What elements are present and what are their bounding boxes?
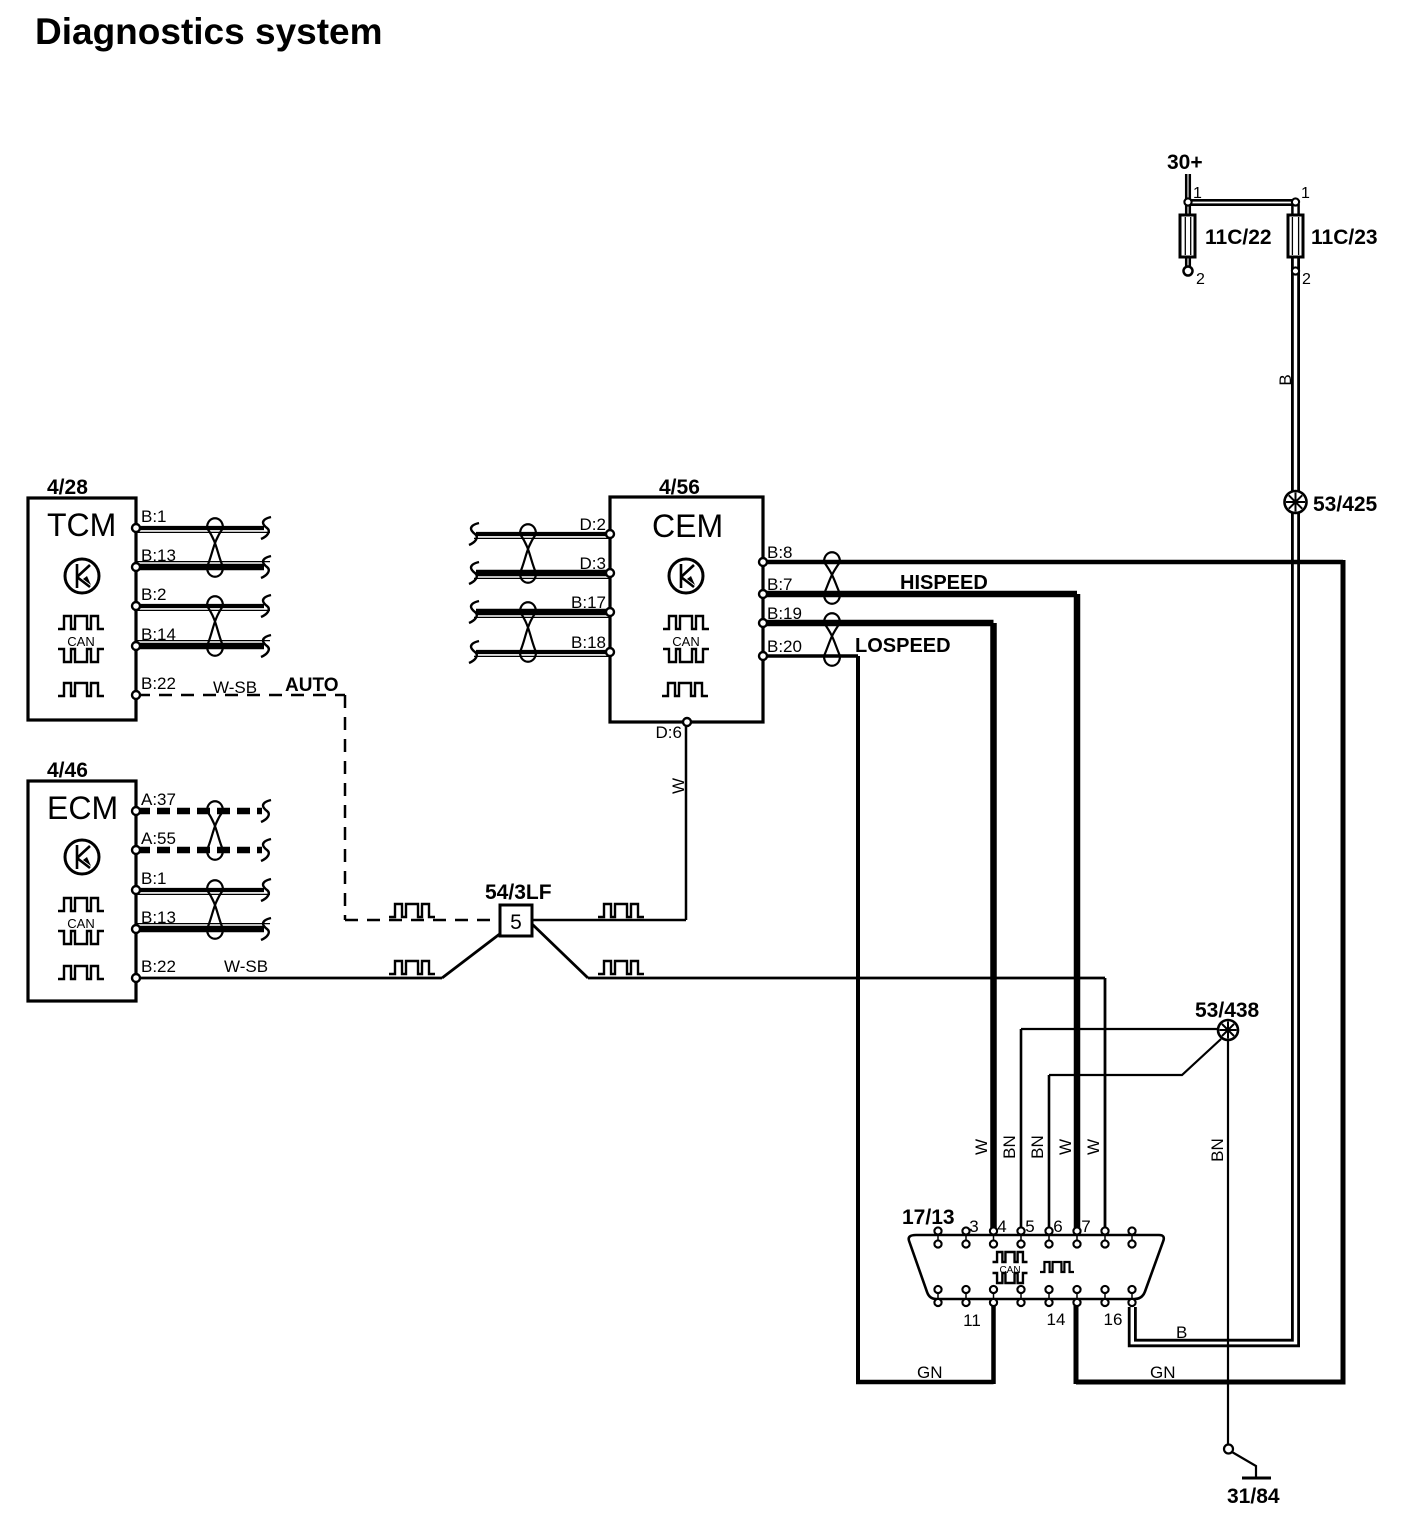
svg-text:B:8: B:8: [767, 543, 793, 562]
twisted pair symbol B:8/B:7: [824, 552, 840, 604]
wire BN splice to ground switch: [1227, 1038, 1229, 1448]
twisted pair symbol D:2/D:3: [520, 524, 536, 583]
pulse symbol on right branch: [598, 961, 644, 974]
wire TCM B:1 (CAN pair): [137, 526, 264, 530]
wire D:6 vertical: [685, 724, 688, 920]
fuse 11C/23 body: [1288, 215, 1303, 257]
svg-text:5: 5: [510, 911, 522, 934]
wire TCM B:22 W-SB dashed segment: [137, 694, 345, 697]
TCM pin B:22: [132, 691, 140, 699]
svg-text:3: 3: [969, 1217, 978, 1236]
CEM pin B:17: [606, 608, 614, 616]
control module TCM box: [28, 498, 136, 720]
wire junction to CEM D:6 horizontal: [532, 919, 686, 922]
svg-text:AUTO: AUTO: [285, 675, 338, 696]
svg-text:TCM: TCM: [47, 507, 116, 543]
pulse symbol on W-SB branch: [389, 961, 435, 974]
wire break B:14: [261, 635, 271, 657]
wire break B:13: [261, 556, 271, 578]
svg-text:11: 11: [963, 1311, 981, 1330]
terminal 2 left: [1184, 267, 1193, 276]
wire ECM A:37 dashed: [137, 808, 262, 815]
wire BN to pin 5: [1049, 1039, 1221, 1075]
ECM K-line diagnostic symbol: [65, 840, 99, 874]
wire CEM B:19 horizontal: [763, 620, 994, 627]
wire GN right vertical to pin 14: [1074, 1303, 1079, 1384]
TCM pin B:13: [132, 563, 140, 571]
wire AUTO dashed vertical: [344, 695, 347, 920]
CEM pin B:18: [606, 648, 614, 656]
CEM pulse symbol: [662, 683, 708, 696]
svg-text:B:18: B:18: [571, 633, 606, 652]
ECM pin A:55: [132, 846, 140, 854]
ECM CAN symbol: [58, 898, 104, 911]
wire ECM B:22 W-SB to junction: [137, 977, 442, 980]
wire BN to pin 4: [1021, 1028, 1218, 1030]
wire B:20 vertical down: [856, 656, 860, 1382]
pulse symbol on D:6 branch: [598, 904, 644, 917]
svg-text:BN: BN: [1000, 1135, 1019, 1159]
svg-text:W: W: [972, 1139, 991, 1155]
twisted pair symbol ECM B:1/B:13: [207, 880, 223, 939]
wire B:8 vertical down: [1341, 560, 1346, 1382]
CEM pin D:3: [606, 569, 614, 577]
ECM pin B:13: [132, 925, 140, 933]
svg-text:B:13: B:13: [141, 908, 176, 927]
connector CAN symbol: [993, 1252, 1028, 1262]
node 1 right stub: [1291, 204, 1294, 215]
switch lever: [1232, 1452, 1256, 1477]
wire TCM B:2 (CAN pair): [137, 604, 264, 608]
TCM pin B:2: [132, 602, 140, 610]
svg-text:31/84: 31/84: [1227, 1485, 1280, 1508]
wire junction left diagonal: [442, 933, 501, 978]
wire TCM B:14 (CAN pair): [137, 643, 264, 650]
CEM pin B:8: [759, 558, 767, 566]
svg-text:B:7: B:7: [767, 575, 793, 594]
control module ECM box: [28, 781, 136, 1001]
connector bottom row pins 9-16: [937, 1286, 939, 1306]
wire break B:17: [469, 601, 479, 623]
svg-text:14: 14: [1047, 1310, 1066, 1329]
svg-text:D:6: D:6: [656, 723, 682, 742]
wire GN left vertical to pin 11: [991, 1303, 996, 1384]
wire CEM B:8 horizontal: [763, 560, 1343, 565]
svg-text:CAN: CAN: [67, 634, 94, 649]
CEM pin B:20: [759, 652, 767, 660]
svg-text:B:13: B:13: [141, 546, 176, 565]
wire B:7 vertical to pin 6: [1074, 594, 1081, 1228]
svg-text:30+: 30+: [1167, 151, 1203, 174]
TCM K-line diagnostic symbol: [65, 559, 99, 593]
wire ECM B:1 (CAN pair): [137, 888, 264, 892]
CEM K-line diagnostic symbol: [669, 559, 703, 593]
svg-text:11C/23: 11C/23: [1311, 226, 1378, 249]
node 1 left: [1184, 198, 1191, 205]
wire break D:2: [469, 523, 479, 545]
TCM pin B:1: [132, 524, 140, 532]
twisted pair symbol B:2/B:14: [207, 596, 223, 656]
wire break B:18: [469, 641, 479, 663]
wire break ECM B:1: [261, 879, 271, 901]
svg-text:2: 2: [1196, 271, 1205, 288]
TCM pulse symbol: [58, 683, 104, 696]
svg-text:B:22: B:22: [141, 957, 176, 976]
ground bar 31/84: [1242, 1477, 1271, 1480]
ECM pin A:37: [132, 807, 140, 815]
svg-text:W: W: [1084, 1139, 1103, 1155]
twisted pair symbol B:19/B:20: [824, 613, 840, 666]
svg-text:6: 6: [1053, 1217, 1062, 1236]
wire B:19 vertical to pin 3: [990, 623, 997, 1228]
CEM pin D:6: [683, 718, 691, 726]
svg-text:11C/22: 11C/22: [1205, 226, 1272, 249]
CEM pin D:2: [606, 530, 614, 538]
wire break B:1: [261, 517, 271, 539]
wire break B:2: [261, 595, 271, 617]
CEM pin B:19: [759, 619, 767, 627]
CEM CAN symbol: [663, 616, 709, 629]
svg-text:B:1: B:1: [141, 507, 167, 526]
node 1 right: [1292, 198, 1299, 205]
wire CEM B:17 (pair): [476, 609, 609, 616]
control module CEM box: [610, 497, 763, 722]
svg-text:A:37: A:37: [141, 790, 176, 809]
wire GN left horizontal: [856, 1380, 994, 1385]
svg-text:D:3: D:3: [580, 554, 606, 573]
wire break A:37: [261, 800, 271, 822]
splice 53/425: [1285, 491, 1307, 513]
svg-text:B:19: B:19: [767, 604, 802, 623]
wire ECM A:55 dashed: [137, 847, 262, 854]
svg-text:CEM: CEM: [652, 508, 723, 544]
svg-text:2: 2: [1302, 271, 1311, 288]
svg-text:B:2: B:2: [141, 585, 167, 604]
wire CEM B:18 (pair): [476, 650, 609, 654]
svg-text:A:55: A:55: [141, 829, 176, 848]
svg-text:5: 5: [1025, 1217, 1034, 1236]
svg-text:54/3LF: 54/3LF: [485, 881, 552, 904]
ECM pulse symbol: [58, 966, 104, 979]
fuse 11C/22 body: [1180, 215, 1195, 257]
TCM pin B:14: [132, 642, 140, 650]
svg-text:W-SB: W-SB: [224, 957, 268, 976]
splice 53/438: [1218, 1020, 1238, 1040]
wire CEM D:2 (pair): [476, 532, 609, 536]
wire B double-line from fuse to connector pin 16: [1135, 257, 1292, 1340]
wire TCM B:13 (CAN pair): [137, 564, 264, 571]
wire AUTO dashed horizontal to junction: [345, 919, 499, 922]
svg-text:W: W: [669, 778, 688, 794]
connector 17/13 body: [909, 1235, 1164, 1299]
wire bus double horizontal: [1187, 199, 1296, 202]
svg-text:B:14: B:14: [141, 625, 176, 644]
svg-text:B:20: B:20: [767, 637, 802, 656]
svg-text:LOSPEED: LOSPEED: [855, 635, 951, 657]
wire W vertical to pin 7: [1104, 978, 1107, 1228]
wire CEM B:7 HISPEED horizontal: [763, 591, 1077, 598]
svg-text:B:22: B:22: [141, 674, 176, 693]
wire CEM D:3 (pair): [476, 570, 609, 577]
CEM pin B:7: [759, 590, 767, 598]
svg-text:D:2: D:2: [580, 515, 606, 534]
connector pulse symbol: [1040, 1262, 1074, 1272]
wire GN right horizontal: [1076, 1380, 1346, 1385]
svg-text:CAN: CAN: [672, 634, 699, 649]
svg-text:7: 7: [1081, 1217, 1090, 1236]
svg-text:17/13: 17/13: [902, 1206, 955, 1229]
junction box 54/3LF: [500, 905, 532, 936]
wire break A:55: [261, 839, 271, 861]
TCM CAN symbol: [58, 616, 104, 629]
svg-text:53/438: 53/438: [1195, 999, 1260, 1022]
wire 30+ double vertical: [1185, 174, 1188, 202]
svg-text:1: 1: [1301, 185, 1310, 202]
twisted pair symbol A:37/A:55: [207, 801, 223, 860]
svg-text:ECM: ECM: [47, 790, 118, 826]
wire junction right branch horizontal: [588, 977, 1105, 980]
svg-text:Diagnostics system: Diagnostics system: [35, 11, 383, 52]
svg-text:53/425: 53/425: [1313, 493, 1378, 516]
connector top row pins 1-8: [937, 1228, 939, 1247]
pulse symbol on AUTO branch: [389, 904, 435, 917]
svg-text:4/46: 4/46: [47, 759, 88, 782]
svg-text:B: B: [1276, 374, 1295, 385]
svg-text:4: 4: [997, 1217, 1006, 1236]
wire break ECM B:13: [261, 918, 271, 940]
svg-text:B:17: B:17: [571, 593, 606, 612]
fuse 11C/22 feed stub: [1185, 204, 1188, 267]
ECM pin B:1: [132, 886, 140, 894]
wire break D:3: [469, 562, 479, 584]
svg-text:B: B: [1176, 1323, 1187, 1342]
svg-text:CAN: CAN: [67, 916, 94, 931]
ECM pin B:22: [132, 974, 140, 982]
wire ECM B:13 (CAN pair): [137, 926, 264, 933]
svg-text:HISPEED: HISPEED: [900, 572, 988, 594]
svg-text:BN: BN: [1028, 1135, 1047, 1159]
node 2 right: [1292, 267, 1299, 274]
svg-text:GN: GN: [917, 1363, 943, 1382]
wire junction right diagonal: [532, 924, 588, 978]
svg-text:GN: GN: [1150, 1363, 1176, 1382]
twisted pair symbol B:1/B:13: [207, 518, 223, 577]
svg-text:W-SB: W-SB: [213, 678, 257, 697]
svg-text:4/28: 4/28: [47, 476, 88, 499]
twisted pair symbol B:17/B:18: [520, 602, 536, 662]
svg-text:16: 16: [1104, 1310, 1123, 1329]
switch contact: [1224, 1445, 1233, 1454]
svg-text:B:1: B:1: [141, 869, 167, 888]
svg-text:W: W: [1056, 1139, 1075, 1155]
svg-text:1: 1: [1193, 185, 1202, 202]
svg-text:BN: BN: [1208, 1138, 1227, 1162]
wire CEM B:20 LOSPEED horizontal: [763, 654, 858, 658]
